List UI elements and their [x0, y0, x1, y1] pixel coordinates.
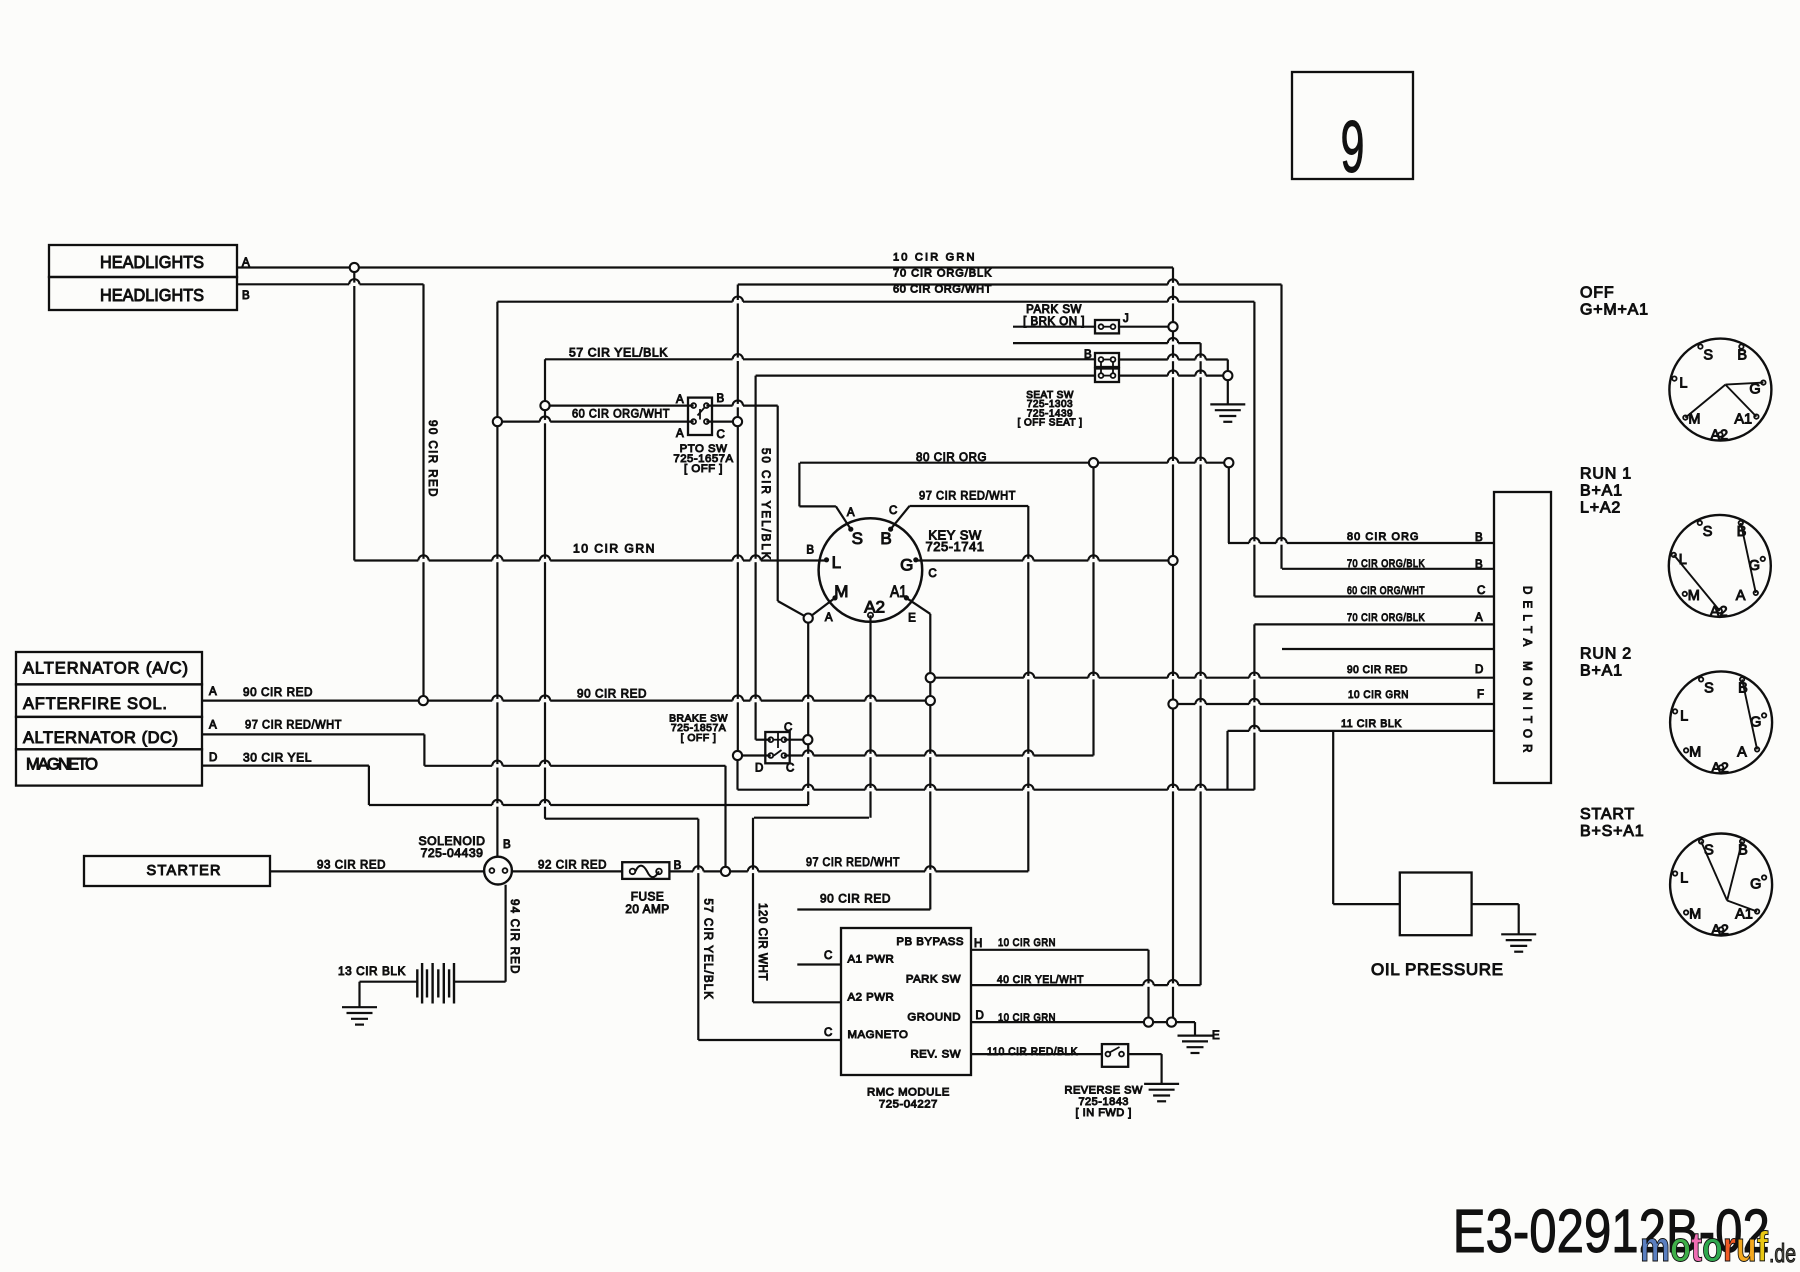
svg-text:90 CIR RED: 90 CIR RED	[577, 687, 647, 701]
svg-text:L: L	[1680, 871, 1688, 887]
svg-text:L+A2: L+A2	[1580, 500, 1621, 517]
svg-text:AFTERFIRE SOL.: AFTERFIRE SOL.	[23, 695, 167, 713]
svg-text:B: B	[242, 290, 250, 302]
svg-text:C: C	[1477, 585, 1485, 597]
svg-text:A: A	[242, 257, 250, 269]
svg-text:[ OFF SEAT ]: [ OFF SEAT ]	[1017, 418, 1082, 429]
svg-text:[ IN FWD ]: [ IN FWD ]	[1076, 1107, 1132, 1119]
svg-text:20 AMP: 20 AMP	[625, 902, 669, 916]
svg-text:A: A	[847, 507, 855, 519]
svg-text:9: 9	[1341, 107, 1365, 188]
svg-text:C: C	[784, 722, 792, 734]
svg-text:50 CIR YEL/BLK: 50 CIR YEL/BLK	[759, 448, 771, 560]
svg-text:60 CIR ORG/WHT: 60 CIR ORG/WHT	[572, 407, 670, 421]
svg-text:70 CIR ORG/BLK: 70 CIR ORG/BLK	[893, 268, 992, 280]
svg-text:C: C	[824, 1027, 832, 1039]
svg-text:PARK SW: PARK SW	[906, 974, 961, 986]
svg-text:G: G	[1750, 877, 1761, 893]
svg-text:S: S	[852, 529, 863, 548]
svg-text:OIL PRESSURE: OIL PRESSURE	[1371, 960, 1503, 979]
svg-text:F: F	[1477, 689, 1484, 701]
svg-text:A2: A2	[1710, 604, 1728, 620]
svg-text:97 CIR RED/WHT: 97 CIR RED/WHT	[245, 718, 342, 732]
svg-text:S: S	[1703, 348, 1713, 364]
svg-text:RUN 2: RUN 2	[1580, 646, 1632, 663]
svg-text:C: C	[786, 763, 794, 775]
svg-text:D: D	[209, 752, 217, 764]
svg-text:57 CIR YEL/BLK: 57 CIR YEL/BLK	[569, 346, 668, 360]
svg-text:90 CIR RED: 90 CIR RED	[243, 685, 313, 699]
svg-text:B: B	[806, 545, 814, 557]
svg-text:40 CIR YEL/WHT: 40 CIR YEL/WHT	[997, 974, 1084, 986]
svg-text:S: S	[1704, 680, 1714, 696]
svg-text:A1 PWR: A1 PWR	[848, 954, 895, 966]
svg-text:[ OFF ]: [ OFF ]	[684, 463, 723, 475]
svg-text:57 CIR YEL/BLK: 57 CIR YEL/BLK	[702, 899, 714, 1000]
svg-text:H: H	[974, 938, 982, 950]
svg-text:90 CIR RED: 90 CIR RED	[1347, 664, 1408, 676]
svg-text:B: B	[1737, 348, 1747, 364]
svg-text:110 CIR RED/BLK: 110 CIR RED/BLK	[987, 1046, 1078, 1058]
svg-text:A: A	[1737, 744, 1747, 760]
svg-text:D: D	[976, 1010, 984, 1022]
svg-text:B+A1: B+A1	[1580, 483, 1623, 500]
svg-text:B: B	[1475, 559, 1483, 571]
svg-text:C: C	[824, 950, 832, 962]
svg-text:G+M+A1: G+M+A1	[1580, 302, 1649, 319]
svg-text:B: B	[503, 839, 511, 851]
svg-text:MAGNETO: MAGNETO	[848, 1029, 909, 1041]
svg-text:A2: A2	[1710, 428, 1728, 444]
svg-text:OFF: OFF	[1580, 285, 1614, 302]
svg-text:A1: A1	[1734, 412, 1752, 428]
svg-text:90 CIR RED: 90 CIR RED	[426, 420, 438, 497]
svg-text:PB BYPASS: PB BYPASS	[896, 936, 964, 948]
svg-text:B+A1: B+A1	[1580, 663, 1623, 680]
svg-text:10 CIR GRN: 10 CIR GRN	[1348, 689, 1409, 701]
svg-text:M: M	[1689, 744, 1701, 760]
svg-text:10 CIR GRN: 10 CIR GRN	[998, 937, 1056, 949]
svg-text:93 CIR RED: 93 CIR RED	[317, 858, 386, 872]
svg-text:B: B	[717, 393, 725, 405]
svg-text:G: G	[900, 556, 913, 575]
svg-text:D: D	[1475, 664, 1483, 676]
svg-text:REV. SW: REV. SW	[910, 1049, 961, 1061]
svg-text:A: A	[825, 612, 833, 624]
svg-text:90 CIR RED: 90 CIR RED	[820, 892, 891, 906]
svg-text:60 CIR ORG/WHT: 60 CIR ORG/WHT	[893, 284, 992, 296]
svg-text:A2 PWR: A2 PWR	[848, 992, 895, 1004]
svg-text:60 CIR ORG/WHT: 60 CIR ORG/WHT	[1347, 585, 1425, 597]
svg-text:725-1843: 725-1843	[1078, 1096, 1129, 1108]
svg-text:S: S	[1703, 524, 1713, 540]
svg-text:725-04227: 725-04227	[879, 1099, 938, 1111]
svg-text:START: START	[1580, 806, 1635, 823]
svg-text:RUN 1: RUN 1	[1580, 466, 1632, 483]
svg-text:PARK SW: PARK SW	[1026, 304, 1082, 316]
svg-text:10 CIR GRN: 10 CIR GRN	[998, 1012, 1056, 1024]
svg-text:A: A	[1475, 612, 1483, 624]
svg-text:MAGNETO: MAGNETO	[26, 756, 98, 774]
svg-text:B: B	[880, 529, 891, 548]
svg-text:97 CIR RED/WHT: 97 CIR RED/WHT	[919, 489, 1016, 503]
svg-text:725-04439: 725-04439	[421, 846, 484, 860]
svg-text:A1: A1	[890, 582, 907, 601]
svg-text:HEADLIGHTS: HEADLIGHTS	[100, 285, 204, 305]
svg-text:A: A	[1736, 588, 1746, 604]
svg-text:725-1741: 725-1741	[926, 539, 985, 554]
svg-text:HEADLIGHTS: HEADLIGHTS	[100, 252, 204, 272]
svg-text:E: E	[908, 612, 916, 624]
svg-text:97 CIR RED/WHT: 97 CIR RED/WHT	[806, 855, 900, 869]
svg-text:ALTERNATOR (A/C): ALTERNATOR (A/C)	[23, 660, 188, 678]
svg-text:10 CIR GRN: 10 CIR GRN	[573, 542, 655, 556]
svg-text:B+S+A1: B+S+A1	[1580, 823, 1644, 840]
svg-text:70 CIR ORG/BLK: 70 CIR ORG/BLK	[1347, 612, 1425, 624]
svg-text:10 CIR GRN: 10 CIR GRN	[893, 252, 975, 264]
svg-text:B: B	[674, 860, 682, 872]
svg-text:92 CIR RED: 92 CIR RED	[538, 858, 607, 872]
svg-text:C: C	[889, 505, 897, 517]
svg-text:A2: A2	[864, 598, 885, 617]
svg-text:STARTER: STARTER	[147, 863, 221, 879]
svg-text:A: A	[209, 686, 217, 698]
svg-text:13 CIR BLK: 13 CIR BLK	[338, 964, 406, 978]
svg-text:11 CIR BLK: 11 CIR BLK	[1341, 718, 1402, 730]
svg-text:.de: .de	[1769, 1238, 1796, 1268]
svg-text:RMC MODULE: RMC MODULE	[867, 1087, 950, 1099]
svg-text:B: B	[1475, 532, 1483, 544]
svg-text:E: E	[1212, 1030, 1220, 1042]
svg-text:[ OFF ]: [ OFF ]	[681, 733, 717, 744]
svg-text:C: C	[717, 429, 725, 441]
svg-text:L: L	[1679, 376, 1687, 392]
svg-text:REVERSE SW: REVERSE SW	[1065, 1085, 1143, 1097]
svg-text:M: M	[1689, 907, 1701, 923]
svg-text:A: A	[209, 720, 217, 732]
svg-text:M: M	[1688, 588, 1700, 604]
svg-text:C: C	[928, 568, 936, 580]
svg-text:ALTERNATOR (DC): ALTERNATOR (DC)	[23, 729, 178, 747]
svg-text:A2: A2	[1711, 760, 1729, 776]
svg-text:70 CIR ORG/BLK: 70 CIR ORG/BLK	[1347, 558, 1425, 570]
svg-text:A2: A2	[1711, 923, 1729, 939]
svg-text:GROUND: GROUND	[907, 1012, 961, 1024]
svg-text:D: D	[755, 763, 763, 775]
svg-text:L: L	[832, 553, 841, 572]
svg-text:M: M	[834, 582, 848, 601]
svg-text:94 CIR RED: 94 CIR RED	[508, 899, 520, 974]
svg-text:L: L	[1680, 708, 1688, 724]
svg-text:J: J	[1123, 313, 1129, 325]
svg-text:80 CIR ORG: 80 CIR ORG	[916, 450, 987, 464]
svg-text:motoruf: motoruf	[1640, 1223, 1769, 1270]
svg-text:[ BRK ON ]: [ BRK ON ]	[1023, 316, 1085, 328]
svg-text:DELTA MONITOR: DELTA MONITOR	[1521, 586, 1533, 759]
svg-text:B: B	[1084, 349, 1092, 361]
svg-text:30 CIR YEL: 30 CIR YEL	[243, 751, 312, 765]
svg-text:120 CIR WHT: 120 CIR WHT	[756, 903, 768, 981]
svg-text:80 CIR ORG: 80 CIR ORG	[1347, 531, 1419, 543]
svg-text:A: A	[676, 428, 684, 440]
svg-text:A: A	[676, 394, 684, 406]
